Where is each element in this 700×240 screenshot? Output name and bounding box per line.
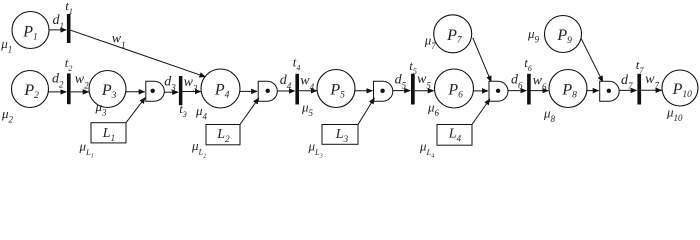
place P8 xyxy=(549,70,587,108)
wire J4 to t6 xyxy=(508,90,526,92)
wire t3 to P4 (w3) xyxy=(182,91,200,93)
wire L2 to J2 xyxy=(240,98,259,125)
wire t2 to P3 (w2) xyxy=(71,91,89,93)
wire P3 to junction J1 xyxy=(126,91,145,93)
and-junction J5 xyxy=(600,81,619,101)
wire P2 to t2 xyxy=(48,91,66,93)
label box L4 xyxy=(437,125,472,146)
label box L2 xyxy=(206,125,240,145)
transition t4 xyxy=(295,74,299,105)
transition t3 xyxy=(179,76,183,105)
place P3 xyxy=(89,71,126,108)
wire L4 to J4 xyxy=(472,99,490,125)
wire P9 to junction J5 xyxy=(581,39,603,82)
wire P5 to junction J3 xyxy=(355,90,373,92)
place P4 xyxy=(201,69,240,108)
wire t1 to P4 (w1) xyxy=(71,30,206,77)
and-junction J1 xyxy=(146,81,164,101)
place P2 xyxy=(12,71,49,108)
wire P6 to junction J4 xyxy=(473,90,488,92)
wire t7 to P10 (w7) xyxy=(641,89,661,91)
and-junction J2 xyxy=(258,81,277,101)
place P1 xyxy=(12,12,49,49)
wire J2 to t4 xyxy=(277,90,294,92)
wire L1 to J1 xyxy=(126,98,145,123)
wire P4 to junction J2 xyxy=(240,90,257,92)
wire L3 to J3 xyxy=(358,98,374,125)
transition t7 xyxy=(637,74,641,105)
place P6 xyxy=(435,69,474,108)
wire t4 to P5 (w4) xyxy=(299,90,317,92)
transition t2 xyxy=(67,73,71,104)
wire J3 to t5 xyxy=(393,90,411,92)
label box L3 xyxy=(322,125,358,145)
wire t5 to P6 (w5) xyxy=(415,90,434,92)
place P9 xyxy=(545,16,582,53)
label box L1 xyxy=(91,123,126,143)
wire P7 to junction J4 xyxy=(473,38,491,82)
and-junction J4 xyxy=(489,81,508,101)
wire J1 to t3 xyxy=(164,91,178,93)
place P10 xyxy=(662,70,698,106)
place P5 xyxy=(317,70,355,108)
wire t6 to P8 (w6) xyxy=(531,90,549,92)
transition t5 xyxy=(411,74,415,105)
transition t1 xyxy=(67,14,71,43)
transition t6 xyxy=(527,74,531,105)
wire P8 to junction J5 xyxy=(587,90,599,92)
and-junction J3 xyxy=(374,81,393,101)
wire P1 to t1 xyxy=(50,29,67,31)
place P7 xyxy=(434,15,472,53)
wire J5 to t7 xyxy=(619,89,637,91)
